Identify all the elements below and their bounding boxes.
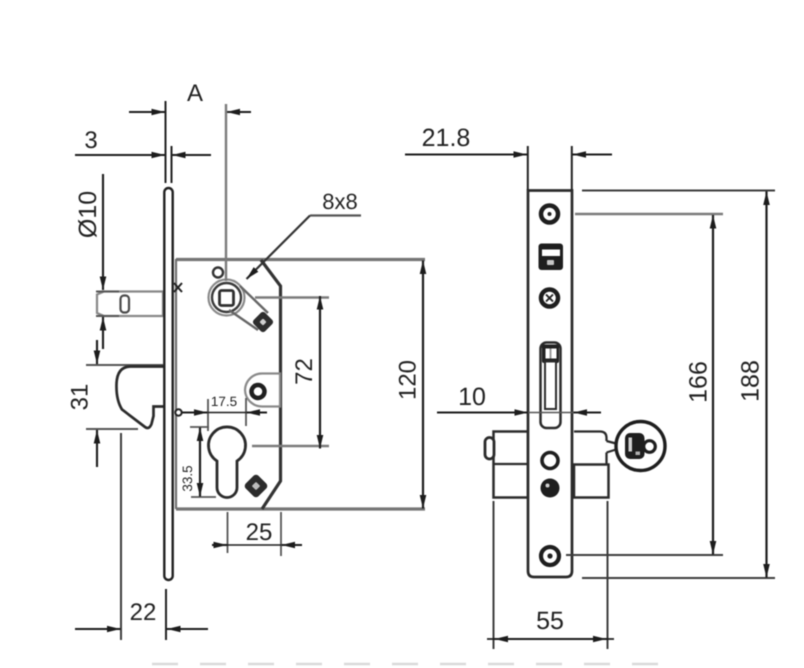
dimension 31 text xyxy=(67,384,94,411)
O10 tick bottom xyxy=(96,315,119,317)
svg-text:25: 25 xyxy=(246,519,273,546)
latch dark head xyxy=(542,345,559,364)
svg-text:120: 120 xyxy=(395,360,422,400)
dimension 3 left arrow xyxy=(75,154,165,156)
extension line below faceplate xyxy=(165,589,167,640)
dimension 72 line with arrows xyxy=(319,296,321,449)
dimension 31 bottom extension xyxy=(86,428,138,430)
case left tab xyxy=(485,438,494,460)
dimension 17.5 small circle xyxy=(175,409,181,415)
case right lower block xyxy=(574,465,609,498)
svg-text:Ø10: Ø10 xyxy=(74,191,102,238)
dimension O10 text xyxy=(74,191,102,238)
plate hole 2 (phillips screw) xyxy=(541,290,558,307)
key bow circle xyxy=(616,422,665,471)
dimension 17.5 text xyxy=(211,394,237,409)
extension line above faceplate (right) xyxy=(171,146,173,183)
svg-text:188: 188 xyxy=(737,360,765,402)
svg-text:72: 72 xyxy=(291,358,318,385)
dimension 21.8 left arrow xyxy=(405,153,527,155)
case left block mid line xyxy=(494,463,529,465)
latch bolt body xyxy=(545,362,556,410)
dimension A left arrow xyxy=(129,111,165,113)
O10 tick top xyxy=(96,291,119,293)
plate hole 5 (bottom ring) xyxy=(541,547,559,565)
cam tip pin (dark) xyxy=(252,311,275,334)
label 8x8 leader arrow xyxy=(247,216,311,280)
dimension 3 right arrow xyxy=(172,154,211,156)
dimension A extension line down to hub xyxy=(225,104,227,281)
dimension 25 text xyxy=(246,519,273,546)
spindle hub outer circle xyxy=(209,280,245,316)
dimension 17.5 ext lines xyxy=(208,398,246,431)
dimension 31 bottom arrow xyxy=(96,430,98,467)
plate hole 3 (ring) xyxy=(542,453,558,469)
euro profile cylinder hole xyxy=(209,427,246,498)
dimension 55 text xyxy=(536,607,564,635)
case left block xyxy=(494,432,529,498)
dimension 120 text xyxy=(395,360,422,400)
dimension 25 arrows xyxy=(212,544,302,546)
svg-text:8x8: 8x8 xyxy=(322,189,357,214)
dimension 166 ext lines xyxy=(566,214,723,555)
dimension 3 text xyxy=(84,127,97,154)
dimension 188 line with arrows xyxy=(765,192,767,578)
dimension 22 text xyxy=(130,599,157,626)
dimension 72 extensions xyxy=(252,298,329,447)
dimension 166 line with arrows xyxy=(712,215,714,555)
key pin ring xyxy=(644,441,656,453)
dimension 31 top extension xyxy=(86,364,163,366)
svg-text:3: 3 xyxy=(84,127,97,154)
svg-text:55: 55 xyxy=(536,607,564,635)
hub lug small circle xyxy=(213,268,223,278)
svg-text:21.8: 21.8 xyxy=(422,124,471,152)
dimension 188 text xyxy=(737,360,765,402)
dimension 55 ext lines xyxy=(494,501,608,649)
svg-text:31: 31 xyxy=(67,384,94,411)
dimension 10 text xyxy=(458,383,486,411)
dimension 21.8 right arrow xyxy=(573,153,613,155)
extension line above faceplate (left) xyxy=(165,101,167,183)
dimension 33.5 text xyxy=(180,465,195,491)
label 8x8 underline xyxy=(310,214,361,216)
faceplate edge view (stadium) xyxy=(164,188,172,580)
dimension 188 ext lines xyxy=(582,191,775,579)
faceplate front view xyxy=(528,191,572,578)
dimension 120 line with arrows xyxy=(422,261,424,509)
plate hole top (ring) xyxy=(541,206,558,223)
dimension O10 upper arrow xyxy=(102,174,104,290)
dimension 17.5 arrows xyxy=(182,411,267,413)
follower screw circle (thick) xyxy=(252,385,265,398)
lock body left edge xyxy=(175,259,177,509)
dimension A right arrow xyxy=(227,111,252,113)
dimension 33.5 ext lines xyxy=(190,427,216,497)
hook bolt xyxy=(116,367,166,429)
label 8x8 text xyxy=(322,189,357,214)
bottom fixing screw (dark diamond) xyxy=(243,473,268,498)
lock body right edge with chamfers xyxy=(261,260,281,509)
lock body bottom edge (also ext line for 120) xyxy=(176,507,425,510)
lock body top edge (also ext line for 120) xyxy=(176,258,425,261)
pin collar bracket xyxy=(121,296,130,313)
dimension 166 text xyxy=(685,361,713,403)
svg-text:33.5: 33.5 xyxy=(180,465,195,491)
svg-text:10: 10 xyxy=(458,383,486,411)
dimension 33.5 line with arrows xyxy=(199,428,201,497)
cylinder pin (O10) outline xyxy=(97,292,163,317)
plate hub front (dark square) xyxy=(539,244,564,271)
key bit (dark) xyxy=(625,433,645,459)
faint artifact line at bottom xyxy=(152,663,665,666)
svg-text:17.5: 17.5 xyxy=(211,394,237,409)
dimension A text xyxy=(187,80,203,107)
contact mark on plate xyxy=(174,283,182,292)
dimension 22 left arrow xyxy=(75,628,121,630)
plate hole 4 (dark disc) xyxy=(541,479,560,498)
dimension O10 lower arrow xyxy=(102,317,104,349)
svg-text:166: 166 xyxy=(685,361,713,403)
svg-text:22: 22 xyxy=(130,599,157,626)
case right upper block xyxy=(574,432,607,465)
dimension 22 right arrow xyxy=(167,628,208,630)
dimension 31 top arrow xyxy=(96,340,98,364)
dimension 21.8 text xyxy=(422,124,471,152)
dimension 72 text xyxy=(291,358,318,385)
dimension 55 line with arrows xyxy=(487,638,614,640)
square spindle hole 8x8 xyxy=(220,291,234,306)
spindle hub inner circle xyxy=(212,283,241,312)
dimension 21.8 ext lines xyxy=(528,146,572,190)
dimension 25 ext lines xyxy=(228,512,282,556)
dimension 10 arrows xyxy=(437,411,601,413)
cam lever lower edge xyxy=(229,310,258,330)
svg-text:A: A xyxy=(187,80,203,107)
latch slot xyxy=(541,343,561,429)
dimension 22 extension left xyxy=(120,433,122,640)
cam lever upper edge xyxy=(240,286,268,313)
follower rounded housing xyxy=(245,373,280,406)
cylinder neck to key xyxy=(607,441,617,453)
